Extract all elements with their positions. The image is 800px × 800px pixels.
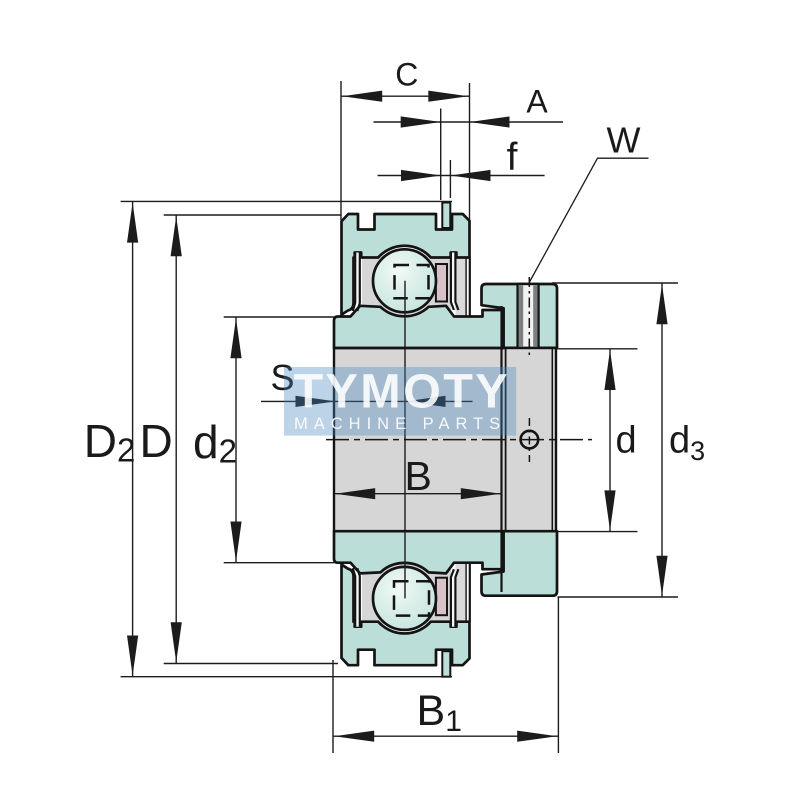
svg-text:f: f — [507, 136, 518, 179]
svg-text:A: A — [526, 84, 548, 120]
svg-text:MACHINE PARTS: MACHINE PARTS — [294, 415, 506, 433]
svg-text:B: B — [405, 453, 432, 499]
svg-text:TYMOTY: TYMOTY — [294, 365, 510, 419]
svg-text:W: W — [607, 120, 641, 161]
svg-text:d: d — [616, 420, 637, 462]
svg-text:D: D — [140, 415, 173, 467]
svg-text:C: C — [395, 57, 418, 93]
